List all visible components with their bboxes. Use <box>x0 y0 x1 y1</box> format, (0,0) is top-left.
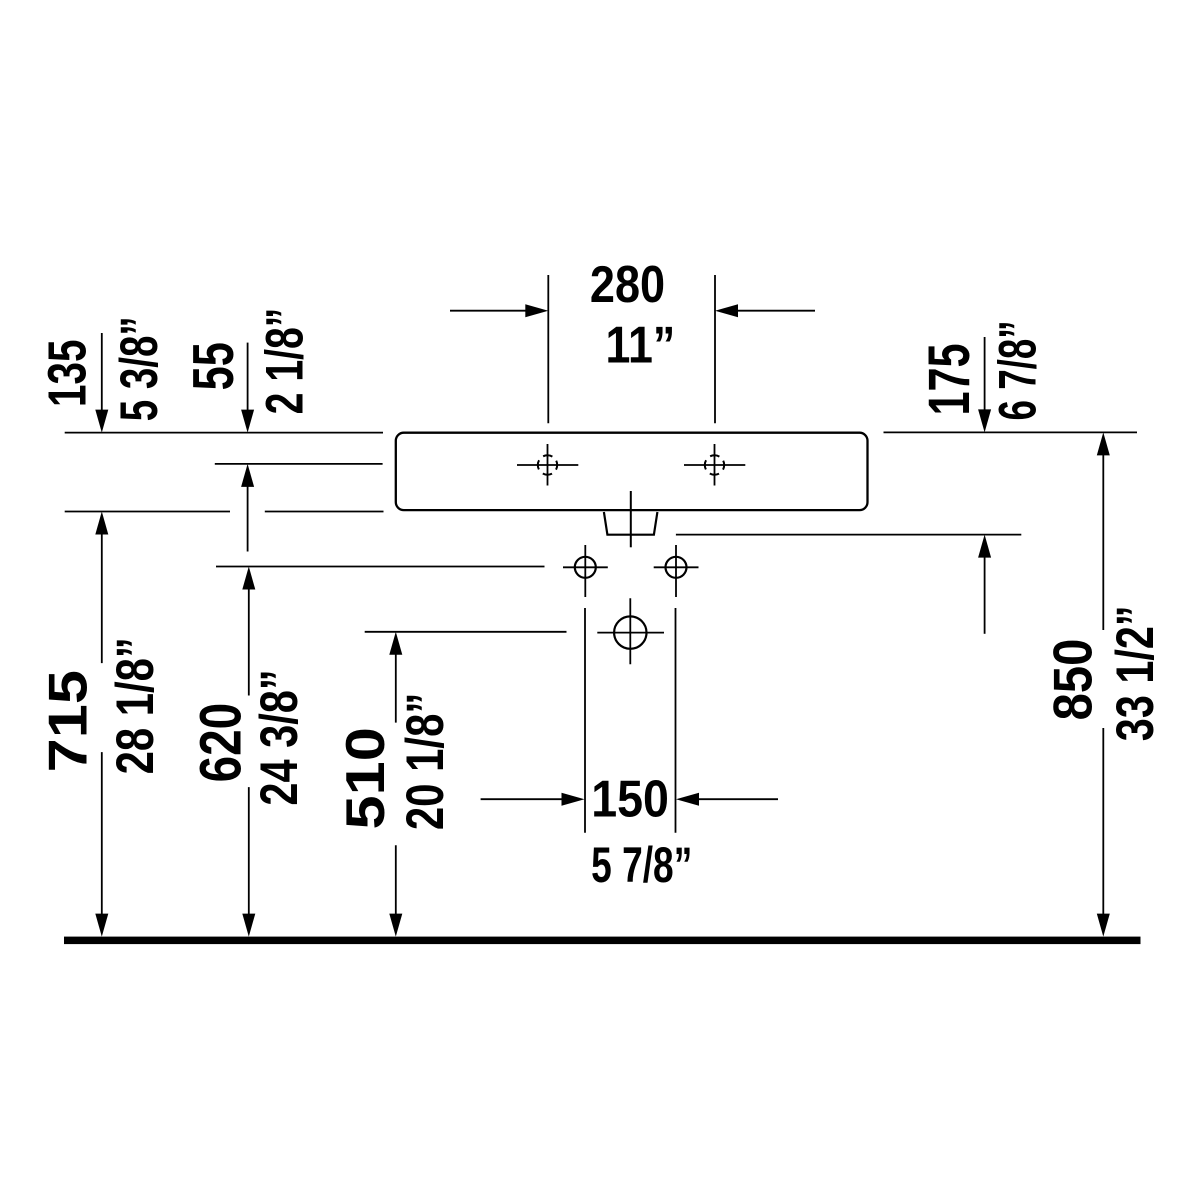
svg-text:715: 715 <box>38 670 99 772</box>
dim label 850 <box>1042 639 1103 721</box>
svg-text:620: 620 <box>189 703 254 783</box>
175 mm dimension arrow lower (up to drain outlet line) <box>978 535 991 634</box>
dim label 510 <box>335 727 396 829</box>
svg-text:6 7/8”: 6 7/8” <box>989 320 1048 420</box>
wall top reference line (left of sink) <box>65 432 383 434</box>
faucet-hole axis reference line (55 mm) <box>215 463 383 465</box>
620 mm dimension line with arrows <box>242 567 255 937</box>
175 mm dimension arrow upper (down to top line) <box>978 337 991 432</box>
dim label 150 <box>591 770 669 828</box>
faucet hole left (dashed circle with crosshair) <box>517 444 578 486</box>
55 mm dimension arrow upper (down to top line) <box>241 343 254 433</box>
150 mm dimension arrow left <box>481 793 585 806</box>
280 mm extension line right <box>714 275 716 423</box>
svg-text:33 1/2”: 33 1/2” <box>1106 605 1165 741</box>
svg-text:135: 135 <box>37 340 97 407</box>
dim label 24 3/8 inch <box>250 669 309 805</box>
fixing holes axis reference line (620 mm) <box>216 566 545 568</box>
dim label 620 <box>189 703 254 783</box>
svg-text:11”: 11” <box>606 315 676 373</box>
850 mm dimension line with arrows <box>1097 432 1110 936</box>
faucet hole right (dashed circle with crosshair) <box>684 444 745 486</box>
dim label 11 inch <box>606 315 676 373</box>
715 mm dimension line with arrows <box>95 512 108 937</box>
dim label 20 1/8 inch <box>396 693 455 831</box>
dim label 28 1/8 inch <box>106 637 165 774</box>
fixing hole right (circle with crosshair) <box>654 545 699 597</box>
dim label 715 <box>38 670 99 772</box>
svg-text:55: 55 <box>182 342 246 390</box>
svg-text:850: 850 <box>1042 639 1103 721</box>
svg-text:5 3/8”: 5 3/8” <box>110 316 169 421</box>
sink underside reference line (135 mm), left segment <box>65 511 230 513</box>
dim label 33 1/2 inch <box>1106 605 1165 741</box>
sink body (rounded rectangle, front view) <box>396 433 868 510</box>
150 mm dimension arrow right <box>676 793 778 806</box>
svg-text:20 1/8”: 20 1/8” <box>396 693 455 831</box>
svg-text:150: 150 <box>591 770 669 828</box>
dim label 175 <box>917 343 982 415</box>
55 mm dimension arrow lower (up to faucet axis line) <box>241 464 254 552</box>
floor line <box>64 937 1141 945</box>
drain outlet trapezoid under sink <box>604 512 658 535</box>
dim label 280 <box>590 255 665 313</box>
top reference line (right of sink) <box>884 431 1138 433</box>
dim label 6 7/8 inch <box>989 320 1048 420</box>
svg-text:5 7/8”: 5 7/8” <box>591 837 692 893</box>
drain outlet reference line (175 mm) <box>676 534 1021 536</box>
fixing hole left (circle with crosshair) <box>563 545 608 597</box>
dim label 2 1/8 inch <box>256 308 315 415</box>
280 mm dimension arrow left <box>450 304 548 317</box>
150 mm extension line right <box>675 608 677 833</box>
drain outlet vertical centerline <box>630 491 632 547</box>
drain pipe axis reference line (510 mm) <box>365 631 567 633</box>
svg-text:2 1/8”: 2 1/8” <box>256 308 315 415</box>
dim label 5 3/8 inch <box>110 316 169 421</box>
svg-text:175: 175 <box>917 343 982 415</box>
dim label 5 7/8 inch <box>591 837 692 893</box>
drain pipe hole (circle with crosshair) <box>597 598 664 664</box>
sink underside reference line (135 mm), right segment <box>265 511 384 513</box>
svg-text:24 3/8”: 24 3/8” <box>250 669 309 805</box>
dim label 135 <box>37 340 97 407</box>
280 mm extension line left <box>547 275 549 423</box>
135 mm dimension arrow (down to wall line) <box>95 333 108 433</box>
150 mm extension line left <box>584 608 586 833</box>
280 mm dimension arrow right <box>715 304 815 317</box>
svg-text:510: 510 <box>335 727 396 829</box>
dim label 55 <box>182 342 246 390</box>
svg-text:28 1/8”: 28 1/8” <box>106 637 165 774</box>
510 mm dimension line with arrows <box>389 632 402 937</box>
svg-text:280: 280 <box>590 255 665 313</box>
